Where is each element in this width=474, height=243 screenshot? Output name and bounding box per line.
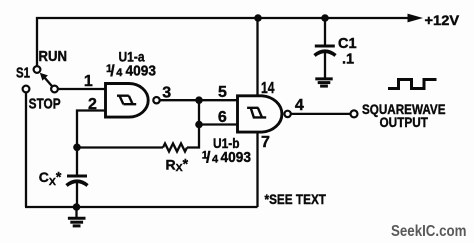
- svg-text:7: 7: [261, 134, 270, 151]
- svg-text:4: 4: [116, 67, 123, 79]
- junction pin14 tap: [254, 14, 262, 22]
- svg-text:3: 3: [162, 85, 171, 102]
- resistor Rx: [163, 144, 187, 152]
- wire feedback vertical: [198, 100, 200, 124]
- switch S1 STOP terminal: [23, 86, 30, 93]
- switch S1 arm: [40, 73, 53, 87]
- junction node D: [73, 203, 81, 211]
- svg-text:4: 4: [295, 97, 304, 114]
- wire +12V top rail: [37, 18, 410, 66]
- wire pin 3: [160, 99, 199, 101]
- svg-text:/: /: [110, 63, 115, 80]
- wire pin 14: [256, 18, 258, 96]
- svg-text:1: 1: [84, 73, 93, 90]
- wire Rx left lead: [77, 146, 163, 148]
- svg-text:2: 2: [88, 96, 97, 113]
- svg-text:STOP: STOP: [29, 96, 61, 113]
- switch S1 common terminal: [51, 86, 58, 93]
- capacitor Cx: [67, 148, 88, 208]
- svg-text:+12V: +12V: [425, 12, 460, 28]
- wire pin 6: [199, 123, 238, 125]
- junction node B: [195, 121, 203, 129]
- output terminal: [351, 110, 358, 117]
- svg-text:4093: 4093: [221, 149, 252, 166]
- NAND gate U1-b: [238, 96, 291, 132]
- svg-text:OUTPUT: OUTPUT: [380, 114, 429, 130]
- ground symbol left: [68, 207, 86, 226]
- svg-text:/: /: [206, 150, 211, 167]
- wire pin 4: [291, 113, 350, 115]
- wire pin 7: [256, 132, 258, 207]
- wire bottom ground rail: [25, 206, 258, 208]
- +12V arrowhead: [408, 14, 424, 23]
- svg-text:SeekIC.com: SeekIC.com: [391, 223, 467, 240]
- svg-text:.1: .1: [342, 51, 354, 67]
- svg-text:4093: 4093: [126, 63, 157, 80]
- svg-text:6: 6: [218, 109, 227, 126]
- svg-text:C1: C1: [338, 36, 357, 52]
- junction node A: [195, 96, 203, 104]
- wire pin 2: [77, 111, 105, 148]
- svg-text:*SEE TEXT: *SEE TEXT: [265, 192, 327, 208]
- svg-text:4: 4: [212, 154, 219, 166]
- ground symbol C1: [315, 79, 332, 86]
- wire pin 1: [58, 88, 105, 90]
- svg-text:S1: S1: [16, 65, 30, 82]
- junction node C: [73, 144, 81, 152]
- wire Rx right lead: [187, 125, 199, 148]
- svg-text:5: 5: [218, 84, 227, 101]
- svg-text:RX*: RX*: [166, 156, 189, 175]
- wire pin 5: [199, 99, 238, 101]
- svg-text:14: 14: [261, 80, 275, 97]
- svg-text:CX*: CX*: [39, 168, 62, 188]
- wire STOP down: [25, 92, 27, 207]
- capacitor C1: [315, 18, 336, 78]
- switch S1 RUN terminal: [34, 66, 41, 73]
- svg-text:RUN: RUN: [39, 48, 68, 65]
- squarewave icon: [388, 80, 437, 89]
- junction C1 tap: [321, 14, 329, 22]
- NAND gate U1-a: [106, 84, 160, 118]
